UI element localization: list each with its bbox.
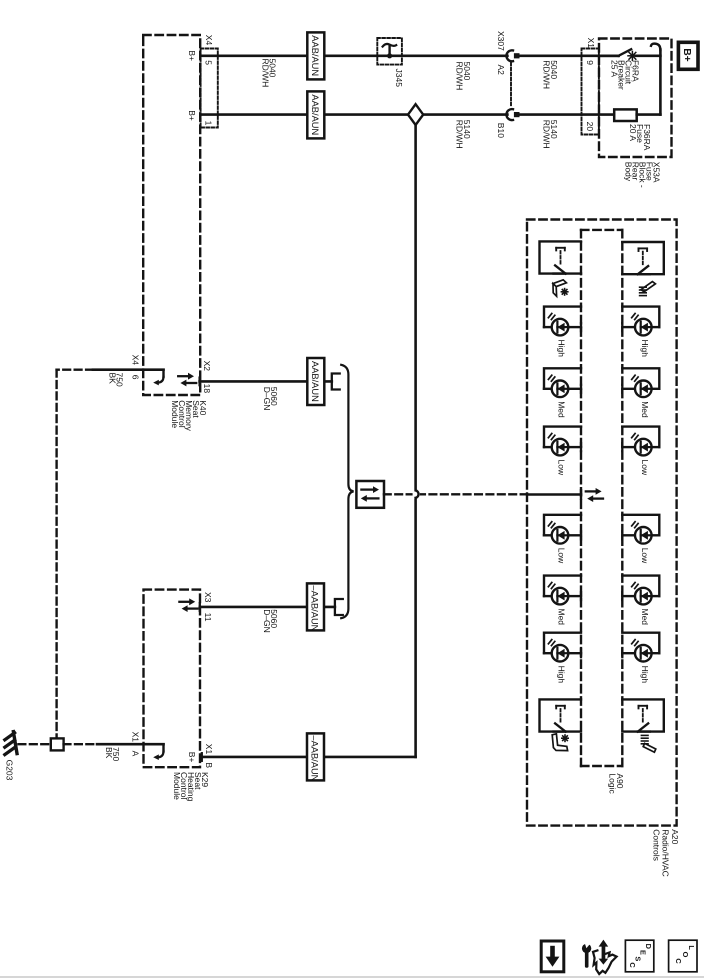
svg-text:X4: X4: [131, 355, 141, 366]
dashed 750 BK to K29 X1-A: [64, 743, 97, 745]
wire 5140 RD/WH: X4-1 to X307: [201, 113, 508, 116]
in-line connector X307 terminal A2 (arc + pin square): [506, 50, 513, 61]
svg-text:X4: X4: [204, 35, 214, 46]
harness label box -AAB/AUN (X1-B wire): [307, 733, 324, 780]
svg-text:–AAB/AUN: –AAB/AUN: [310, 735, 320, 781]
switch lever + actuator (right top): [622, 242, 664, 274]
button icon left top: [553, 280, 566, 287]
svg-text:J345: J345: [394, 69, 404, 88]
svg-text:A90Logic: A90Logic: [608, 773, 625, 794]
svg-text:X53AFuseBlock -RearBody: X53AFuseBlock -RearBody: [623, 162, 661, 188]
svg-text:5040RD/WH: 5040RD/WH: [455, 62, 472, 91]
svg-text:B+: B+: [187, 110, 197, 121]
svg-text:E: E: [639, 950, 648, 955]
main vertical wire from diamond to K29 X1-B (with hop over control line): [414, 125, 417, 490]
wire 5060 D-GN: K40 X2-18 to twisted pair: [200, 380, 332, 383]
svg-text:F36RAFuse20 A: F36RAFuse20 A: [628, 124, 652, 151]
solid control line inside A20 box: [527, 493, 581, 496]
indicator LED Low (left col, y=535.3): [544, 515, 581, 536]
svg-text:Low: Low: [557, 548, 567, 564]
legend icon: box with down arrow: [541, 941, 564, 972]
wire end bracket (lower pair lead): [335, 599, 343, 615]
wire 5060 D-GN: K29 X3-11 to twisted pair: [200, 606, 335, 609]
wire 750 BK from X4-6 to ground run (dashed): [57, 369, 93, 371]
dashed ground wire to junction square: [19, 743, 51, 745]
svg-text:5140RD/WH: 5140RD/WH: [542, 120, 559, 149]
svg-text:High: High: [640, 666, 650, 684]
pin tick X3-11: [199, 603, 201, 611]
svg-text:D: D: [644, 944, 653, 950]
switch lever + actuator (left top): [540, 241, 582, 273]
svg-text:A: A: [131, 751, 141, 757]
svg-text:B+: B+: [187, 752, 197, 763]
svg-text:AAB/AUN: AAB/AUN: [310, 94, 320, 135]
svg-text:C: C: [628, 962, 637, 968]
svg-text:Low: Low: [557, 460, 567, 476]
switch lever + actuator (right bottom): [622, 699, 664, 731]
svg-text:B10: B10: [496, 123, 506, 138]
K29 seat heating control module dashed outline: [144, 590, 201, 768]
arrows at A90 control line entry: [586, 490, 597, 492]
in-line connector X307 terminal B10 (arc + pin square): [506, 109, 513, 120]
svg-text:B+: B+: [187, 50, 197, 61]
A20 radio/HVAC controls dashed outline: [527, 220, 677, 826]
svg-text:5: 5: [203, 60, 213, 65]
svg-text:5060D–GN: 5060D–GN: [262, 387, 279, 411]
svg-text:Med: Med: [640, 609, 650, 626]
svg-text:X3: X3: [203, 592, 213, 603]
wire end bracket (upper pair lead): [332, 374, 340, 390]
K40 serial data arrows at X2-18: [178, 375, 189, 377]
svg-text:Low: Low: [640, 548, 650, 564]
indicator LED High (left col, y=327.1): [544, 307, 581, 328]
indicator LED High (right col, y=327.1): [622, 307, 659, 328]
K29 internal circuit at X1-A (wire + hook): [97, 743, 164, 746]
connector X1 of fuse block (pins 9/20) fine-dashed box: [582, 49, 599, 135]
svg-text:High: High: [557, 666, 567, 684]
svg-text:F6RACircuitBreaker25 A: F6RACircuitBreaker25 A: [610, 60, 641, 90]
seat memory control module K40 dashed outline: [143, 35, 200, 395]
legend icon: DESC box: [625, 940, 653, 972]
wire breaker to B+ stud riser: [636, 54, 661, 57]
svg-text:A20Radio/HVACControls: A20Radio/HVACControls: [651, 829, 679, 877]
svg-text:High: High: [640, 340, 650, 358]
svg-text:1: 1: [203, 121, 213, 126]
svg-text:11: 11: [203, 613, 213, 622]
svg-text:Med: Med: [557, 609, 567, 626]
svg-text:B+: B+: [681, 48, 692, 61]
connector X307 dashed link: [510, 63, 512, 107]
riser wire to B+ terminal curl: [659, 50, 662, 115]
fuse F36RA 20A body: [614, 109, 637, 121]
indicator LED High (right col, y=653.2): [622, 633, 659, 654]
svg-text:AAB/AUN: AAB/AUN: [310, 35, 320, 76]
splice pack J345 dashed box: [377, 38, 402, 65]
K29 serial data arrows at X3-11: [179, 601, 190, 603]
svg-text:S: S: [633, 956, 642, 961]
svg-text:X1: X1: [131, 732, 141, 743]
svg-text:L: L: [687, 945, 696, 950]
svg-text:750BK: 750BK: [104, 747, 121, 761]
legend icon: wrench with up/down arrow (service): [582, 944, 591, 953]
A90 logic dashed box: [581, 229, 622, 231]
wire 5140 RD/WH: X307 to fuse F36RA: [520, 113, 615, 116]
svg-text:High: High: [557, 340, 567, 358]
switch lever + actuator (left bottom): [540, 699, 582, 731]
svg-text:X307: X307: [496, 31, 506, 51]
pin tick X2-18: [198, 378, 200, 386]
splice J345 symbol: [388, 46, 390, 56]
harness label box AAB/AUN (wire2): [307, 91, 324, 138]
junction square on 750 BK run: [51, 738, 64, 750]
harness label box AAB/AUN (X2-18 wire): [307, 358, 324, 405]
indicator LED Med (left col, y=388.8): [544, 368, 581, 389]
svg-text:18: 18: [202, 384, 212, 394]
svg-text:5040RD/WH: 5040RD/WH: [260, 59, 277, 88]
svg-text:X1: X1: [586, 38, 596, 49]
connector X4 (top, pins 5/1) fine-dashed box: [201, 49, 218, 128]
connector symbol box with arrows (pass-through): [356, 481, 384, 508]
svg-text:9: 9: [585, 60, 595, 65]
pin tick at A90 control line entry: [580, 490, 582, 498]
legend icon: LOC box: [669, 940, 697, 972]
wire 5040 RD/WH: X307 to fuse block: [520, 54, 619, 57]
svg-text:C: C: [674, 958, 683, 964]
indicator LED Low (right col, y=535.3): [622, 515, 659, 536]
button icon right top: [641, 282, 655, 292]
ground G203 chassis symbol: [13, 732, 17, 754]
svg-text:K40SeatMemoryControlModule: K40SeatMemoryControlModule: [170, 400, 208, 431]
indicator LED Med (right col, y=388.8): [622, 368, 659, 389]
svg-text:–AAB/AUN: –AAB/AUN: [310, 585, 320, 631]
indicator LED Low (right col, y=447.1): [622, 427, 659, 448]
svg-text:20: 20: [585, 122, 595, 132]
indicator LED High (left col, y=653.2): [544, 633, 581, 654]
button icon left bottom: [552, 734, 567, 751]
svg-text:X1: X1: [204, 744, 214, 755]
svg-text:Med: Med: [640, 401, 650, 418]
wire fuse to riser: [637, 113, 661, 116]
svg-text:6: 6: [131, 375, 141, 380]
circuit breaker F6RA 25A (lever + asterisk): [599, 54, 619, 57]
splice diamond on wire 5140: [408, 104, 423, 125]
harness label box AAB/AUN (wire1): [307, 32, 324, 79]
svg-text:K29SeatHeatingControlModule: K29SeatHeatingControlModule: [172, 772, 210, 802]
button icon right bottom: [641, 735, 648, 743]
page footer rule: [0, 976, 704, 978]
K40 internal circuit at X4-6 (wire + hook): [93, 368, 164, 371]
svg-text:G203: G203: [5, 760, 15, 781]
wire hop (vertical over dashed line): [413, 490, 420, 499]
B+ terminal box: [678, 42, 698, 69]
svg-text:O: O: [681, 952, 690, 958]
svg-text:5040RD/WH: 5040RD/WH: [542, 60, 559, 89]
indicator LED Med (right col, y=596.1): [622, 576, 659, 597]
svg-text:750BK: 750BK: [107, 373, 124, 387]
wire 5040 RD/WH: X4-5 to X307: [201, 54, 508, 57]
dashed control line from connector box to A20 radio/HVAC controls: [384, 493, 527, 495]
harness label box -AAB/AUN (X3-11 wire): [307, 583, 324, 630]
svg-text:X2: X2: [202, 361, 212, 372]
twisted/shielded pair brace: [341, 365, 353, 618]
fuse block X53A dashed outline: [599, 39, 672, 158]
svg-text:Med: Med: [557, 401, 567, 418]
svg-text:B: B: [204, 762, 214, 768]
svg-text:5060D–GN: 5060D–GN: [262, 609, 279, 633]
svg-text:A2: A2: [496, 65, 506, 76]
pin tick X1-B: [201, 753, 203, 761]
svg-text:Low: Low: [640, 460, 650, 476]
svg-text:5140RD/WH: 5140RD/WH: [455, 120, 472, 149]
svg-text:AAB/AUN: AAB/AUN: [310, 361, 320, 402]
indicator LED Med (left col, y=596.1): [544, 576, 581, 597]
indicator LED Low (left col, y=447.1): [544, 427, 581, 448]
